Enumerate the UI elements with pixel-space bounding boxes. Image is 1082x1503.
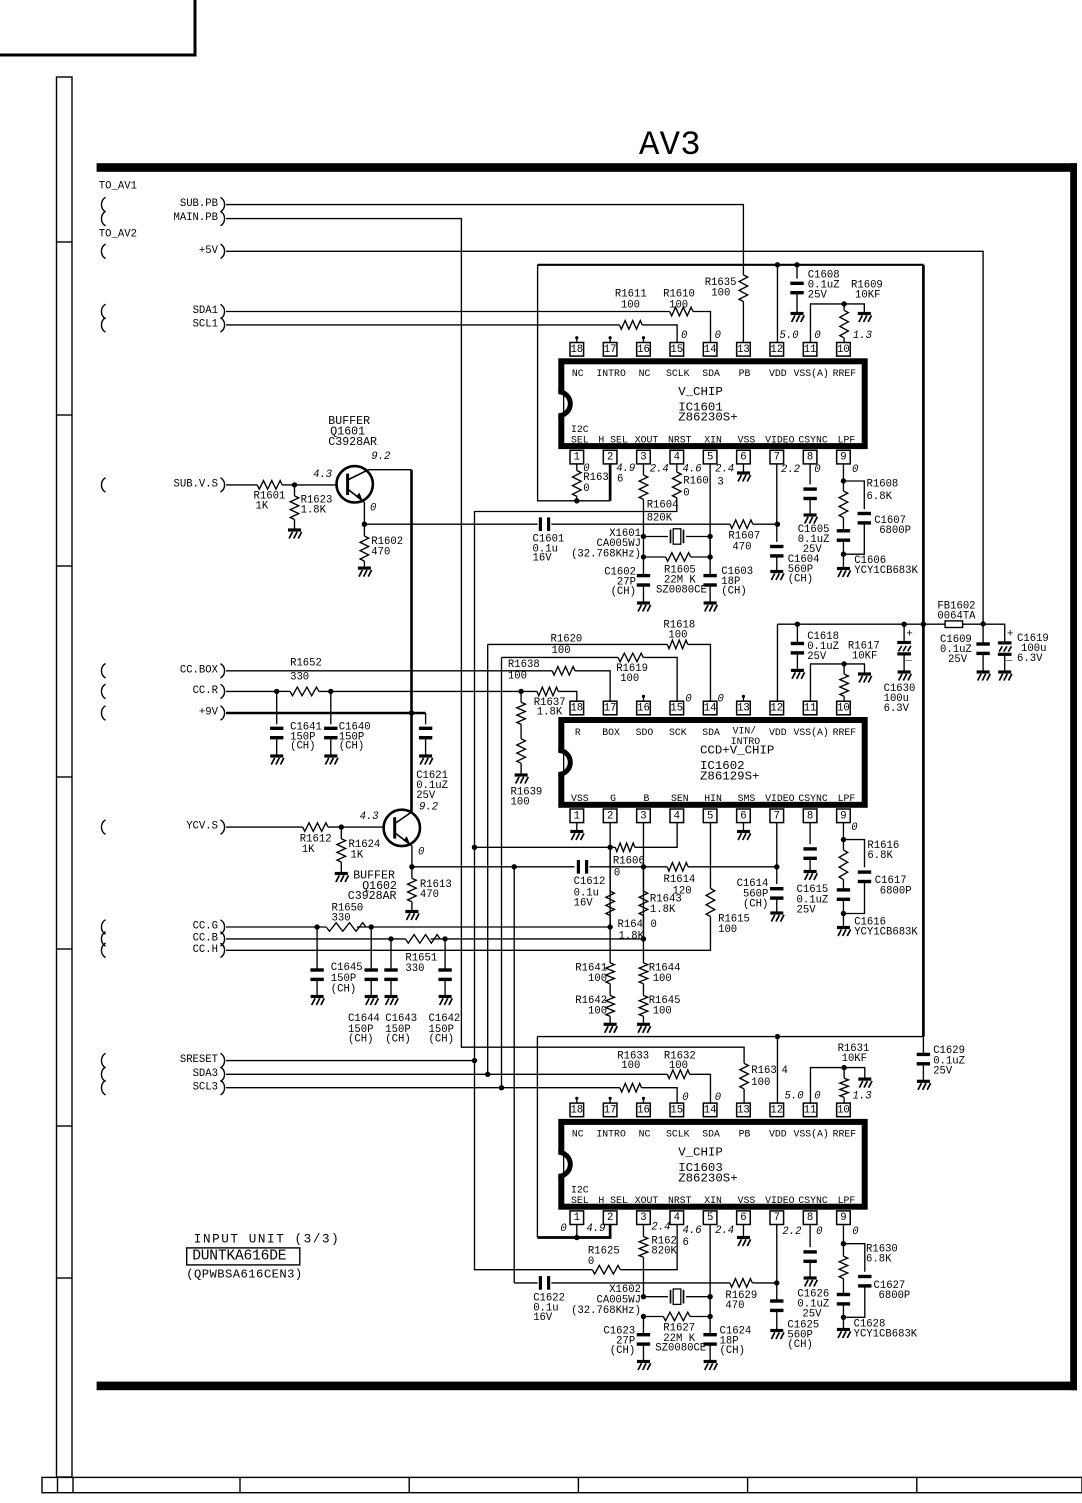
pin 13 box (IC1603)	[737, 1103, 751, 1117]
pin 17 box (IC1603)	[603, 1103, 617, 1117]
capacitor C1612 0.1u 16V	[578, 860, 586, 874]
svg-text:0: 0	[560, 1223, 566, 1235]
junction C1643 node	[388, 936, 393, 941]
svg-text:2: 2	[607, 1212, 613, 1224]
junction rail-bus	[921, 622, 926, 627]
svg-text:25V: 25V	[933, 1066, 953, 1078]
label C1625 560P (CH)	[787, 1320, 819, 1352]
svg-text:SDO: SDO	[636, 727, 654, 738]
svg-text:PB: PB	[739, 368, 751, 379]
svg-text:17: 17	[604, 703, 617, 715]
label C1609 0.1uZ 25V	[940, 634, 972, 666]
resistor R1633 100	[620, 1083, 642, 1092]
wire C1629 stub	[922, 1037, 924, 1053]
resistor R1614 120	[667, 863, 688, 872]
wire C1607 bottom	[843, 523, 864, 554]
wire LPF node to ground IC1603	[842, 1317, 844, 1328]
ground (C1630)	[898, 672, 912, 681]
schematic border right bar	[1070, 163, 1077, 1390]
svg-text:SCL1: SCL1	[193, 319, 218, 331]
resistor R1613 470	[408, 878, 417, 902]
wire R1608 lead	[842, 481, 844, 491]
label R1617 10KF	[848, 640, 880, 662]
pin names top row (IC1601)	[572, 368, 856, 379]
wire YCV.S to R1612	[226, 826, 303, 828]
pin 7 box (IC1602)	[770, 809, 784, 823]
junction rail-pin12 IC1601	[775, 262, 780, 267]
pin 18 box (IC1602)	[570, 701, 584, 715]
IC part number text IC1603	[678, 1146, 738, 1186]
ground (C1618)	[791, 670, 805, 679]
svg-text:1K: 1K	[256, 501, 269, 513]
bottom strip divider	[577, 1477, 579, 1492]
wire SDA1 to R1610	[226, 311, 670, 313]
label C1622 0.1u 16V	[533, 1292, 565, 1324]
capacitor C1626 0.1uZ 25V	[803, 1252, 816, 1261]
wire R1605 left lead	[643, 556, 665, 558]
wire VDD rail IC1602 horizontal	[777, 623, 945, 625]
wire R1623 lead	[294, 485, 296, 496]
label R1640 digit 0	[651, 919, 657, 931]
svg-text:7: 7	[774, 810, 780, 822]
svg-text:10KF: 10KF	[852, 650, 877, 662]
svg-text:1K: 1K	[351, 849, 364, 861]
svg-text:5: 5	[707, 810, 713, 822]
pin 3 box (IC1601)	[637, 450, 651, 464]
label C1602 27P (CH)	[604, 566, 636, 598]
junction C1641 node	[274, 689, 279, 694]
label C1643 150P (CH)	[385, 1013, 417, 1045]
connector signal SCL3	[193, 1081, 225, 1095]
label R1644 100	[649, 963, 681, 985]
wire pin 12 IC1601 VDD	[776, 265, 778, 343]
svg-text:100: 100	[620, 673, 639, 685]
capacitor C1645 150P	[310, 970, 323, 979]
svg-text:100: 100	[718, 924, 737, 936]
svg-text:VIDEO: VIDEO	[765, 434, 795, 445]
ground (R1645)	[637, 1024, 651, 1033]
capacitor C1627 6800P	[858, 1277, 871, 1286]
label R1634 digit 4	[782, 1065, 788, 1077]
svg-text:8: 8	[807, 452, 813, 464]
resistor R1603 0	[672, 472, 681, 498]
pin 16 box (IC1601)	[637, 343, 651, 357]
svg-text:100: 100	[552, 645, 571, 657]
svg-text:4.6: 4.6	[683, 1225, 703, 1237]
svg-text:6: 6	[740, 452, 746, 464]
wire C1617 bottom	[843, 882, 864, 914]
capacitor C1604 560P	[770, 547, 783, 556]
wire R1643 bottom	[642, 916, 644, 939]
wire R1623 to ground	[294, 520, 296, 529]
svg-text:0: 0	[715, 1092, 721, 1104]
svg-text:2: 2	[607, 810, 613, 822]
junction emitter node Q1602	[409, 864, 414, 869]
wire R1630 to C1628	[842, 1279, 844, 1295]
svg-text:CC.R: CC.R	[193, 685, 219, 697]
svg-text:5.0: 5.0	[785, 1091, 804, 1103]
wire crystal to XIN X1602	[686, 1296, 710, 1298]
ground (C1626)	[804, 1278, 818, 1287]
svg-text:0: 0	[685, 693, 691, 705]
wire pin4 IC1601 NRST lead	[676, 464, 678, 472]
capacitor C1603 18P	[703, 576, 716, 585]
svg-text:(CH): (CH)	[720, 1345, 745, 1357]
wire SDA3	[226, 1073, 667, 1075]
svg-text:3: 3	[717, 476, 723, 488]
connector pin arc	[101, 932, 105, 947]
ground (C1643)	[385, 997, 399, 1006]
label R1615 100	[718, 914, 750, 936]
svg-text:(CH): (CH)	[743, 899, 768, 911]
connector pin arc	[101, 664, 105, 679]
svg-text:2.4: 2.4	[715, 1225, 734, 1237]
wire R1645 to ground	[642, 1016, 644, 1023]
svg-text:SUB.PB: SUB.PB	[180, 198, 218, 210]
svg-text:YCY1CB683K: YCY1CB683K	[854, 565, 918, 577]
ground (C1628)	[837, 1330, 851, 1339]
wire VDD rail IC1603	[537, 1036, 923, 1038]
label C1608 0.1uZ 25V	[808, 269, 840, 301]
svg-text:VSS(A): VSS(A)	[793, 727, 828, 738]
IC IC1603 body	[561, 1122, 864, 1207]
connector pin arc	[101, 943, 105, 958]
svg-text:1K: 1K	[302, 844, 315, 856]
svg-text:RREF: RREF	[833, 1129, 857, 1140]
NC stub pin 16 (IC1603)	[642, 1097, 645, 1103]
resistor R1645 100	[639, 996, 648, 1017]
svg-text:9.2: 9.2	[371, 451, 390, 463]
wire emitter node to C1601	[364, 523, 537, 525]
wire C1630 stub	[903, 624, 905, 641]
junction pin7 node IC1603	[774, 1280, 779, 1285]
wire R1611 to pin 15 IC1601	[642, 325, 677, 343]
wire R1642 to ground	[609, 1016, 611, 1023]
resistor R1650 330	[326, 923, 366, 932]
resistor R1651 330	[405, 935, 440, 944]
wire C1643 150P lead	[390, 939, 392, 970]
svg-text:(CH): (CH)	[721, 586, 746, 598]
resistor R1643 1.8K	[639, 891, 648, 915]
bottom strip divider	[57, 1477, 59, 1492]
wire NRST to R1625	[475, 1061, 593, 1270]
label R1635 100	[705, 277, 737, 300]
wire pin9 IC1601 LPF lead	[842, 464, 844, 481]
ground (R1642)	[604, 1024, 618, 1033]
capacitor C1640 150P	[324, 728, 337, 737]
bottom strip divider	[408, 1477, 410, 1492]
wire C1606 to node	[842, 540, 844, 554]
pin names top row (IC1603)	[572, 1129, 856, 1140]
svg-text:H SEL: H SEL	[598, 434, 628, 445]
label R1604 820K	[647, 500, 679, 525]
wire SCL1 to R1611	[226, 324, 619, 326]
svg-text:R1620: R1620	[551, 634, 583, 646]
svg-text:11: 11	[804, 1104, 817, 1116]
junction emitter node Q1601	[362, 522, 367, 527]
pin 18 box (IC1603)	[570, 1103, 584, 1117]
label R1619 100	[616, 663, 648, 685]
wire R1641-R1642	[609, 984, 611, 996]
capacitor C1608 0.1uZ 25V	[790, 283, 803, 292]
svg-text:25V: 25V	[802, 1309, 822, 1321]
pin 5 box (IC1602)	[703, 809, 717, 823]
label C1628 YCY1CB683K	[854, 1319, 918, 1341]
pin names bottom row (IC1601)	[571, 424, 855, 445]
resistor R1604 820K	[639, 475, 648, 499]
svg-text:25V: 25V	[948, 654, 968, 666]
pin 17 box (IC1601)	[603, 343, 617, 357]
svg-text:YCY1CB683K: YCY1CB683K	[854, 927, 918, 939]
svg-text:9: 9	[840, 452, 846, 464]
transistor Q1601 C3928AR	[337, 466, 373, 502]
capacitor C1642 150P	[438, 970, 451, 979]
wire R1644-R1645	[642, 984, 644, 996]
label R1626 digit 6	[683, 1237, 689, 1249]
svg-text:9: 9	[840, 1212, 846, 1224]
NC stub pin 18 (IC1603)	[575, 1097, 578, 1103]
wire SUB.V.S to R1601	[226, 484, 257, 486]
svg-text:(QPWBSA616CEN3): (QPWBSA616CEN3)	[186, 1268, 302, 1282]
svg-text:CC.G: CC.G	[193, 921, 218, 933]
label C1630 100u 6.3V	[884, 683, 916, 715]
resistor R1607 470	[730, 520, 753, 529]
svg-text:6.3V: 6.3V	[884, 703, 910, 715]
svg-text:470: 470	[732, 542, 751, 554]
connector pin arc	[101, 820, 105, 835]
svg-text:INTRO: INTRO	[596, 368, 626, 379]
svg-text:16: 16	[637, 1104, 650, 1116]
wire R1613 lead	[411, 867, 413, 879]
svg-text:10: 10	[837, 1104, 850, 1116]
svg-text:100: 100	[653, 973, 672, 985]
svg-text:100: 100	[669, 1060, 688, 1072]
junction R1631 top	[841, 1065, 846, 1070]
svg-text:R1614: R1614	[664, 874, 696, 886]
resistor R1624 1K	[337, 839, 346, 862]
pin 15 box (IC1603)	[670, 1103, 684, 1117]
capacitor C1617 6800P	[858, 872, 871, 881]
label C1627 6800P	[874, 1280, 911, 1302]
svg-text:LPF: LPF	[838, 434, 856, 445]
wire SDA net vertical	[487, 644, 489, 1074]
resistor R1641 100	[606, 963, 615, 984]
svg-text:+: +	[1007, 628, 1014, 640]
resistor R1615 100	[706, 888, 715, 916]
connector signal SUB.PB	[180, 197, 225, 211]
label R1634 100	[751, 1065, 776, 1089]
wire R1605 right lead	[691, 556, 710, 558]
resistor R1623 1.8K	[290, 496, 299, 520]
junction XIN node X1602	[707, 1294, 712, 1299]
ground (C1642)	[439, 997, 453, 1006]
junction base node Q1602	[339, 824, 344, 829]
svg-text:25V: 25V	[808, 289, 828, 301]
junction +9V collector node	[409, 710, 414, 715]
label C1603 18P (CH)	[721, 566, 753, 598]
pin 15 box (IC1602)	[670, 701, 684, 715]
label R1605 22M K SZ0080CE	[656, 564, 707, 596]
wire video net vertical (to C1622)	[513, 867, 515, 1283]
wire R1618 to pin 14 IC1602	[688, 644, 711, 701]
wire video to C1622	[514, 1282, 537, 1284]
ground (C1606)	[837, 569, 851, 578]
svg-text:Z86230S+: Z86230S+	[678, 411, 738, 425]
wire pin2 IC1601 H SEL (thick)	[609, 464, 612, 501]
svg-text:(32.768KHz): (32.768KHz)	[571, 1305, 641, 1317]
wire pin8 IC1603 CSYNC lead	[809, 1225, 811, 1248]
wire R1614 to pin7 IC1602	[688, 866, 777, 868]
pin 3 box (IC1603)	[637, 1211, 651, 1225]
wire C1616 to node	[842, 899, 844, 913]
wire XOUT down	[642, 537, 644, 558]
resistor R1652 330	[290, 687, 319, 696]
svg-text:NC: NC	[572, 368, 584, 379]
wire R1619 to pin 15 IC1602	[643, 657, 677, 701]
ground (R1624)	[335, 874, 349, 883]
label C1619 100u 6.3V	[1017, 633, 1049, 665]
svg-text:V_CHIP: V_CHIP	[678, 385, 723, 399]
pin 2 box (IC1603)	[603, 1211, 617, 1225]
junction LPF node IC1601	[841, 478, 846, 483]
svg-text:6.8K: 6.8K	[867, 850, 893, 862]
NC stub pin 16 (IC1602)	[642, 695, 645, 701]
svg-text:VDD: VDD	[769, 368, 787, 379]
page corner box top-left	[0, 0, 195, 55]
svg-text:CSYNC: CSYNC	[798, 1195, 828, 1206]
pin 12 box (IC1602)	[770, 701, 784, 715]
wire R1627 left lead	[643, 1316, 663, 1318]
capacitor C1641 150P	[270, 728, 283, 737]
wire Q1601 emitter to video node	[363, 501, 365, 524]
pin 9 box (IC1603)	[837, 1211, 851, 1225]
connector signal SDA1	[193, 304, 225, 318]
wire Q1601 collector to +9V line	[369, 469, 412, 471]
svg-text:R1608: R1608	[867, 479, 899, 491]
svg-text:SRESET: SRESET	[180, 1054, 218, 1066]
label C1615 0.1uZ 25V	[797, 884, 829, 916]
resistor R1634 100 (in PB line)	[740, 1063, 749, 1089]
label R1609 10KF	[851, 279, 883, 301]
pin 11 box (IC1603)	[803, 1103, 817, 1117]
junction R1627 right	[707, 1314, 712, 1319]
label R1610 100	[663, 289, 695, 312]
resistor R1629 470	[730, 1279, 753, 1288]
wire XOUT to crystal X1602	[643, 1296, 668, 1298]
junction C1642 node	[442, 936, 447, 941]
ground (C1616)	[837, 928, 851, 937]
pin 7 box (IC1603)	[770, 1211, 784, 1225]
junction rail-C1618	[795, 622, 800, 627]
pin 6 box (IC1601)	[737, 450, 751, 464]
svg-text:VIDEO: VIDEO	[765, 793, 795, 804]
svg-text:(CH): (CH)	[429, 1034, 454, 1046]
svg-text:SCLK: SCLK	[666, 1129, 690, 1140]
svg-text:CC.BOX: CC.BOX	[180, 664, 219, 676]
svg-text:6800P: 6800P	[880, 886, 912, 898]
label C1629 0.1uZ 25V	[933, 1045, 965, 1078]
svg-text:9: 9	[840, 810, 846, 822]
wire R1639 to ground	[520, 763, 522, 773]
svg-text:470: 470	[420, 889, 439, 901]
capacitor C1621 0.1uZ 25V	[419, 728, 432, 737]
resistor R1611 100	[619, 321, 642, 330]
svg-text:C1612: C1612	[574, 876, 606, 888]
label C1606 YCY1CB683K	[854, 555, 918, 577]
label R1613 470	[420, 879, 452, 901]
svg-text:R164: R164	[618, 919, 643, 931]
wire R1609 lead	[843, 304, 845, 310]
junction C1640 node	[328, 689, 333, 694]
left margin bar divider	[57, 1125, 73, 1127]
svg-text:16: 16	[637, 703, 650, 715]
wire R1636 to node	[576, 496, 578, 500]
svg-text:R1607: R1607	[728, 531, 760, 543]
svg-text:HIN: HIN	[704, 793, 722, 804]
connector signal CC.B	[193, 932, 225, 946]
resistor R1639 100 upper	[517, 702, 526, 724]
label R1636 0	[583, 472, 608, 495]
wire R1650 to pin2 line	[357, 926, 610, 928]
svg-text:13: 13	[737, 344, 750, 356]
svg-text:18: 18	[570, 344, 583, 356]
svg-text:15: 15	[670, 344, 683, 356]
svg-text:(CH): (CH)	[611, 586, 636, 598]
wire R1617 lead	[843, 664, 845, 674]
pin 4 box (IC1603)	[670, 1211, 684, 1225]
connector signal CC.R	[193, 684, 225, 698]
wire C1608 stub	[796, 265, 798, 279]
svg-text:SZ0080CE: SZ0080CE	[656, 584, 707, 596]
connector pin arc	[101, 197, 105, 212]
svg-text:6.8K: 6.8K	[866, 1254, 892, 1266]
svg-text:NC: NC	[639, 368, 651, 379]
svg-text:RREF: RREF	[833, 727, 857, 738]
capacitor C1623 27P	[637, 1335, 650, 1344]
wire R1643 top	[642, 867, 644, 891]
wire pin5 IC1603 XIN lead	[709, 1225, 711, 1317]
ferrite bead FB1602 0064TA	[945, 621, 963, 628]
svg-text:XOUT: XOUT	[635, 1195, 659, 1206]
svg-text:VIDEO: VIDEO	[765, 1195, 795, 1206]
svg-text:TO_AV1: TO_AV1	[99, 181, 137, 193]
junction SEN-NRST node	[472, 845, 477, 850]
wire CC.G to R1650	[226, 926, 326, 928]
wire C1645 150P lead	[316, 927, 318, 970]
connector signal SRESET	[180, 1053, 225, 1067]
wire pin2 line up	[609, 823, 611, 927]
svg-text:4.3: 4.3	[313, 469, 332, 481]
svg-text:+5V: +5V	[199, 245, 219, 257]
svg-text:TO_AV2: TO_AV2	[99, 228, 137, 240]
label BUFFER Q1602 C3928AR	[348, 869, 397, 903]
capacitor C1628 YCY1CB683K	[837, 1295, 850, 1304]
wire +9V to C1621	[425, 713, 427, 724]
capacitor C1602 27P	[637, 576, 650, 585]
label C1601 0.1u 16V	[533, 534, 565, 565]
bottom strip divider	[916, 1477, 918, 1492]
ground (C1602)	[637, 603, 651, 612]
svg-text:0: 0	[852, 464, 858, 476]
svg-text:XOUT: XOUT	[635, 434, 659, 445]
svg-text:B: B	[644, 793, 650, 804]
wire pin1 IC1601 lead	[576, 464, 578, 471]
wire R1634 to pin 13 IC1603	[743, 1089, 745, 1103]
bottom strip divider	[747, 1477, 749, 1492]
wire C1622 to R1629	[551, 1282, 729, 1284]
junction C1606 node	[841, 552, 846, 557]
junction pin7 node IC1602	[774, 864, 779, 869]
